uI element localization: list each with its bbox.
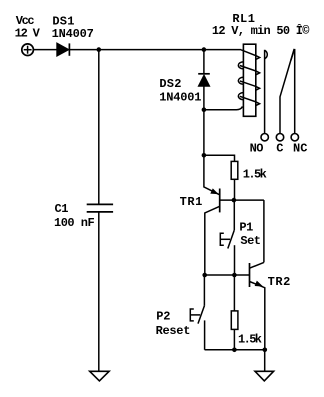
P1 upper lead [233,200,235,230]
svg-text:1.5k: 1.5k [243,167,267,181]
wire top node down to DS2 [203,50,205,74]
node junction mid [202,153,207,158]
wire R1 to TR1 base node [234,179,236,200]
terminal C [276,134,283,141]
TR1 base wire [220,199,264,201]
node junction DS2 top [202,47,207,52]
diode DS1 [57,43,70,56]
P1 actuator bracket [220,233,224,245]
svg-text:1N4001: 1N4001 [159,91,201,105]
coil winding turn 4 [238,93,259,106]
svg-text:TR1: TR1 [180,195,203,209]
terminal NC [291,134,298,141]
relay contact NC hook [291,49,295,60]
resistor R1 1.5k [231,161,238,179]
coil winding turn 1 [241,50,260,60]
wire bottom rail [205,349,265,351]
relay contact NO line [264,50,266,134]
svg-text:Reset: Reset [156,324,191,338]
svg-text:1.5k: 1.5k [238,332,262,346]
terminal NO [261,134,268,141]
wire C1 to ground [98,212,100,371]
P2 upper lead [203,275,205,306]
resistor R2 1.5k [231,311,238,330]
TR1 emitter arrow [211,189,218,194]
coil winding turn 3 [238,77,259,90]
P2 lower lead [204,320,206,349]
TR2 base bar [249,263,251,287]
node junction P1 / R2 [232,273,237,278]
wire DS1 to relay coil [69,49,241,51]
P1 blade [228,230,235,248]
svg-text:Set: Set [240,234,260,248]
TR2 emitter arrow [255,281,262,286]
TR1 base bar [219,189,221,213]
Vcc terminal [22,44,34,56]
svg-text:1N4007: 1N4007 [52,27,94,41]
ground below TR2 [255,371,274,381]
svg-text:C1: C1 [55,202,69,216]
node junction emitter ground [263,348,268,353]
wire to ground 2 [264,350,266,372]
diode DS2 [198,74,210,86]
svg-text:P1: P1 [239,221,253,235]
coil winding turn 2 [238,62,259,75]
wire mid node to R1 [204,155,235,161]
TR1 emitter wire [204,155,219,194]
svg-text:12 V: 12 V [15,26,41,40]
TR2 emitter wire [250,282,265,350]
TR1 collector wire [205,206,220,275]
svg-text:NO: NO [250,142,264,156]
svg-text:12 V, min 50 Î©: 12 V, min 50 Î© [212,23,310,38]
TR2 base wire [205,274,250,276]
relay contact NC line [294,49,296,133]
P2 actuator rod [190,314,200,316]
relay contact NO hook [265,50,268,59]
P2 actuator bracket [190,309,194,321]
capacitor C1 [87,204,113,212]
svg-text:C: C [276,142,283,156]
ground below C1 [90,371,109,381]
svg-text:DS2: DS2 [159,77,181,91]
svg-text:NC: NC [293,142,307,156]
node junction TR1 collector / P2 [202,273,207,278]
P1 lower lead [234,245,236,275]
wire R2 bottom lead [233,329,235,349]
wire base node to TR2 collector [263,200,265,262]
wire R2 top lead [233,275,235,311]
relay contact common armature [280,49,294,133]
wire coil bottom lead [204,107,243,110]
wire DS2 to bottom node [203,86,205,155]
svg-text:P2: P2 [156,310,170,324]
node junction R2 bottom [232,348,237,353]
svg-text:TR2: TR2 [268,275,291,289]
P1 actuator rod [220,238,230,240]
svg-text:100 nF: 100 nF [54,216,95,230]
node junction TR1 base / R1 [232,198,237,203]
node junction left rail top [97,47,102,52]
relay coil core [243,44,255,116]
TR2 collector wire [250,262,264,268]
wire left rail down to C1 [98,50,100,205]
wire Vcc to DS1 [34,49,57,51]
P2 blade [198,306,204,324]
node junction coil bottom [202,107,207,112]
